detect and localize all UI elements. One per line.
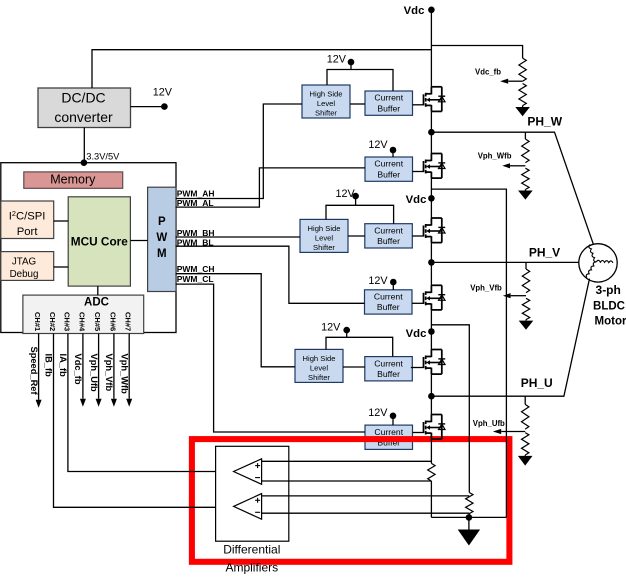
svg-text:Current: Current	[374, 292, 403, 302]
wire: buffer V to gate Q3	[412, 235, 423, 237]
wire: Vdc bus segment 1	[430, 10, 432, 87]
highlight box: differential amplifiers region (red)	[192, 439, 510, 562]
node: 12V dot row W high	[350, 62, 352, 69]
svg-text:BLDC: BLDC	[593, 301, 625, 313]
node: 3.3V/5V junction	[81, 159, 88, 166]
transistor Q3 (N-MOSFET with body diode)	[424, 218, 446, 243]
svg-text:12V: 12V	[368, 139, 388, 151]
svg-text:Buffer: Buffer	[377, 302, 400, 312]
svg-text:Vdc_fb: Vdc_fb	[475, 68, 501, 77]
svg-text:12V: 12V	[327, 54, 347, 66]
svg-text:CH#7: CH#7	[124, 312, 133, 331]
svg-text:12V: 12V	[368, 407, 388, 419]
svg-text:JTAG: JTAG	[12, 257, 36, 268]
wire: bus segment Q5-Q6	[430, 374, 432, 415]
wire: DC/DC to MCU 3.3V/5V	[83, 128, 85, 163]
wire: buffer W low to gate Q2	[413, 171, 424, 173]
resistor: Vph_Wfb divider lower	[522, 168, 529, 189]
wire: MCU core to ADC	[97, 286, 99, 295]
wire: 12V rail row U high	[326, 337, 393, 356]
wire: 12V rail row V high	[326, 205, 394, 223]
svg-text:M: M	[157, 248, 167, 260]
wire: bus segment Q4-Q5	[430, 310, 432, 350]
svg-text:Shifter: Shifter	[313, 243, 335, 252]
node: PH_W junction	[428, 129, 435, 136]
node: PH_V junction	[428, 259, 435, 266]
svg-text:Speed_Ref: Speed_Ref	[29, 347, 39, 396]
svg-text:Vdc_fb: Vdc_fb	[73, 354, 83, 385]
motor winding coil U	[586, 262, 596, 278]
svg-text:P: P	[158, 216, 166, 228]
wire: phase PH_W line	[431, 132, 593, 245]
wire: CH#4 Vdc_fb with arrow	[82, 334, 84, 399]
svg-text:IA_fb: IA_fb	[58, 354, 68, 378]
transistor Q6 (N-MOSFET with body diode)	[424, 415, 446, 440]
svg-text:High Side: High Side	[310, 90, 343, 99]
arrow: Vph_Vfb divider arrowhead	[525, 320, 527, 321]
svg-text:CH#1: CH#1	[33, 312, 42, 331]
wire: CH#5 Vph_Ufb with arrow	[98, 334, 100, 399]
wire: CH#7 Vph_Wfb with arrow	[128, 334, 130, 399]
svg-text:Differential: Differential	[223, 543, 280, 557]
node: 12V dot	[161, 103, 168, 110]
resistor: Vph_Wfb divider upper	[522, 139, 529, 163]
arrow: Vph_Ufb tap arrowhead	[493, 429, 501, 434]
svg-text:Current: Current	[374, 358, 403, 368]
wire: 12V stub current buffer W low	[392, 150, 394, 157]
op-amp U1 (top differential amplifier)	[234, 459, 262, 485]
resistor: Vdc_fb divider upper	[519, 58, 526, 81]
svg-text:Level: Level	[310, 363, 328, 372]
svg-text:CH#3: CH#3	[62, 312, 71, 331]
svg-text:MCU Core: MCU Core	[71, 235, 128, 249]
block: Memory	[24, 172, 123, 188]
wire: 12V stub current buffer U low	[392, 416, 394, 425]
resistor: Vph_Ufb divider upper	[522, 404, 529, 429]
block U7: Current Buffer	[365, 290, 413, 314]
wire: Vph_Wfb divider stub	[524, 132, 526, 139]
svg-text:Vdc: Vdc	[404, 5, 425, 17]
block: MCU Core	[68, 197, 130, 286]
svg-text:3-ph: 3-ph	[596, 283, 621, 297]
svg-text:Current: Current	[374, 159, 403, 169]
wire: ground bus line	[431, 516, 506, 518]
arrow: Vph_Wfb tap arrowhead	[502, 163, 510, 168]
wire: PWM_BH to high side level shifter V	[176, 236, 300, 238]
resistor: Vph_Vfb divider lower	[522, 298, 529, 319]
wire: 12V stub current buffer V low	[392, 282, 394, 290]
wire: Vdc bus to Vdc_fb divider	[431, 46, 522, 59]
wire: buffer U to gate Q5	[411, 367, 424, 369]
svg-text:Buffer: Buffer	[377, 103, 400, 113]
block: differential amplifiers container	[216, 446, 289, 541]
transistor Q2 (N-MOSFET with body diode)	[424, 154, 446, 179]
node: 12V dot row V high	[355, 196, 357, 205]
node: 12V dot row U high	[346, 330, 348, 337]
wire: bus segment Q2-Q3	[430, 178, 432, 218]
block: DC/DC converter	[38, 88, 131, 128]
svg-text:PWM_AH: PWM_AH	[177, 188, 215, 198]
wire: MCU core to PWM	[130, 240, 147, 242]
resistor: sense R phase A	[428, 463, 435, 481]
wire: level shifter V to buffer V	[348, 235, 365, 237]
wire: op-amp U2 + input	[262, 495, 470, 497]
svg-text:CH#4: CH#4	[77, 312, 86, 332]
wire: op-amp U1 - input	[262, 480, 432, 482]
wire: PWM_CH to high side level shifter U	[176, 274, 295, 367]
svg-text:3.3V/5V: 3.3V/5V	[86, 151, 120, 161]
block U10: Current Buffer	[365, 425, 413, 449]
node: ground junction	[466, 514, 473, 521]
block U2: High Side Level Shifter	[302, 85, 350, 118]
block: ADC	[23, 295, 144, 333]
svg-text:converter: converter	[54, 109, 113, 125]
wire: PWM_AH to high side level shifter W	[176, 104, 302, 199]
node: Vdc top	[428, 7, 435, 14]
motor winding coil V	[596, 260, 613, 263]
block: PWM	[148, 187, 176, 291]
wire: Vdc_fb tap	[508, 80, 522, 82]
svg-text:Buffer: Buffer	[377, 169, 400, 179]
node: 12V dot V low	[390, 279, 397, 286]
wire: op-amp U1 + input	[262, 460, 432, 462]
wire: op-amp U2 - input	[262, 512, 470, 514]
svg-text:Vph_Wfb: Vph_Wfb	[119, 354, 129, 395]
node: 12V dot U low	[390, 413, 397, 420]
svg-text:W: W	[156, 232, 167, 244]
wire: Vph_Vfb tap	[511, 295, 526, 297]
wire: phase PH_U line	[431, 279, 589, 397]
svg-text:12V: 12V	[321, 321, 341, 333]
arrow: Vph_Wfb divider arrowhead	[524, 190, 526, 191]
svg-text:Motor: Motor	[595, 316, 626, 328]
node: PH_U junction	[428, 393, 435, 400]
wire: bus segment Q3-Q4	[430, 243, 432, 286]
wire: CH#3 to diff amp 1 output (IA_fb)	[68, 334, 234, 472]
wire: bus segment Q1-Q2	[430, 111, 432, 153]
svg-text:Buffer: Buffer	[377, 236, 400, 246]
svg-text:PWM_CH: PWM_CH	[177, 264, 215, 274]
wire: 12V rail row W high	[327, 70, 393, 92]
svg-text:Vph_Wfb: Vph_Wfb	[478, 151, 512, 160]
wire: sense R phase B bottom stub	[468, 514, 470, 518]
svg-text:CH#5: CH#5	[93, 312, 102, 331]
wire: level shifter U to buffer U	[343, 366, 365, 368]
wire: DC/DC 12V output	[131, 106, 165, 108]
svg-text:CH#2: CH#2	[48, 312, 57, 331]
svg-text:Port: Port	[17, 226, 39, 238]
wire: PWM_AL to current buffer W low	[176, 168, 365, 207]
wire: level shifter W to buffer W	[350, 103, 365, 105]
wire: CH#2 to diff amp 2 output (IB_fb)	[54, 334, 233, 508]
op-amp U2 (bottom differential amplifier)	[234, 494, 262, 520]
svg-text:ADC: ADC	[84, 296, 109, 308]
svg-text:Buffer: Buffer	[377, 369, 400, 379]
wire: phase PH_V line	[431, 261, 578, 263]
svg-text:Shifter: Shifter	[315, 108, 337, 117]
svg-text:Level: Level	[315, 233, 333, 242]
ground	[458, 517, 480, 545]
resistor: Vph_Ufb divider lower	[522, 433, 529, 455]
svg-text:PH_U: PH_U	[521, 376, 553, 390]
wire: Vph_Ufb tap	[501, 431, 525, 433]
block U9: Current Buffer	[365, 357, 413, 381]
arrow: Vph_Vfb tap arrowhead	[503, 293, 511, 298]
wire: sense R phase A bottom to ground line	[430, 481, 432, 517]
node: 12V dot W low	[390, 147, 397, 154]
svg-text:Current: Current	[374, 225, 403, 235]
svg-text:Level: Level	[317, 99, 335, 108]
wire: MCU core to JTAG debug	[54, 266, 68, 268]
arrow: Vdc_fb tap arrowhead	[500, 79, 508, 84]
block: I2C/SPI Port	[1, 201, 54, 239]
block U3: Current Buffer	[365, 91, 413, 115]
svg-text:Vph_Ufb: Vph_Ufb	[89, 354, 99, 393]
svg-text:PH_V: PH_V	[529, 245, 560, 259]
wire: Vph_Vfb divider stub	[525, 262, 527, 269]
svg-text:Vph_Ufb: Vph_Ufb	[473, 419, 505, 428]
wire: bus segment below Q6 to sense resistor	[430, 439, 432, 463]
transistor Q1 (N-MOSFET with body diode)	[424, 87, 446, 112]
svg-text:Shifter: Shifter	[308, 373, 330, 382]
block U4: Current Buffer	[365, 157, 413, 181]
svg-text:PWM_CL: PWM_CL	[177, 274, 214, 284]
block: JTAG Debug	[1, 252, 54, 281]
block U5: High Side Level Shifter	[300, 219, 348, 252]
block: MCU outer box	[1, 163, 176, 333]
svg-text:DC/DC: DC/DC	[61, 89, 105, 105]
transistor Q5 (N-MOSFET with body diode)	[424, 350, 446, 375]
svg-text:High Side: High Side	[303, 354, 336, 363]
svg-text:Current: Current	[374, 93, 403, 103]
motor: 3-ph BLDC motor circle	[579, 244, 617, 282]
svg-text:High Side: High Side	[308, 224, 341, 233]
arrow: Vdc_fb divider to PH_W arrowhead	[522, 106, 524, 107]
wire: MCU core to I2C/SPI port	[54, 220, 68, 222]
wire: Vph_Ufb divider stub	[524, 396, 526, 404]
svg-text:IB_fb: IB_fb	[44, 354, 54, 378]
svg-text:PH_W: PH_W	[527, 114, 562, 128]
svg-text:12V: 12V	[368, 275, 388, 287]
node: Vdc lower	[428, 328, 435, 335]
wire: CH#6 Vph_Vfb with arrow	[113, 334, 115, 399]
svg-text:Vdc: Vdc	[406, 194, 427, 206]
wire: buffer V low to gate Q4	[412, 302, 424, 304]
wire: Q4 source sense tap down	[431, 325, 469, 493]
transistor Q4 (N-MOSFET with body diode)	[424, 285, 446, 310]
svg-text:CH#6: CH#6	[108, 312, 117, 331]
resistor: Vdc_fb divider lower	[519, 84, 526, 106]
label 3-ph BLDC Motor	[593, 283, 626, 328]
wire: CH#1 Speed_Ref with arrow	[38, 334, 40, 400]
wire: buffer U low to gate Q6	[413, 432, 424, 434]
wire: PWM_BL to current buffer V low	[176, 246, 365, 303]
resistor: Vph_Vfb divider upper	[522, 269, 529, 293]
wire: PWM_CL to current buffer U low	[176, 284, 365, 432]
motor winding coil W	[589, 245, 596, 262]
node: Vdc mid	[428, 195, 435, 202]
resistor: sense R phase B	[466, 493, 473, 514]
block U8: High Side Level Shifter	[295, 349, 343, 382]
svg-text:Vph_Vfb: Vph_Vfb	[470, 284, 502, 293]
wire: buffer W to gate Q1	[413, 104, 424, 106]
svg-text:12V: 12V	[335, 188, 355, 200]
wire: Q2 source sense tap to right rail	[431, 189, 506, 517]
arrow: Vph_Ufb divider arrowhead	[524, 454, 526, 457]
svg-text:Vph_Vfb: Vph_Vfb	[104, 354, 114, 392]
svg-text:Current: Current	[374, 427, 403, 437]
block U6: Current Buffer	[365, 224, 413, 248]
svg-text:Memory: Memory	[50, 173, 96, 187]
svg-text:Vdc: Vdc	[406, 328, 427, 340]
wire: Vph_Wfb tap	[510, 165, 525, 167]
svg-text:Amplifiers: Amplifiers	[225, 560, 278, 574]
wire: DC/DC top to Vdc bus	[92, 50, 431, 88]
svg-text:Debug: Debug	[10, 269, 39, 280]
svg-text:12V: 12V	[153, 87, 173, 99]
